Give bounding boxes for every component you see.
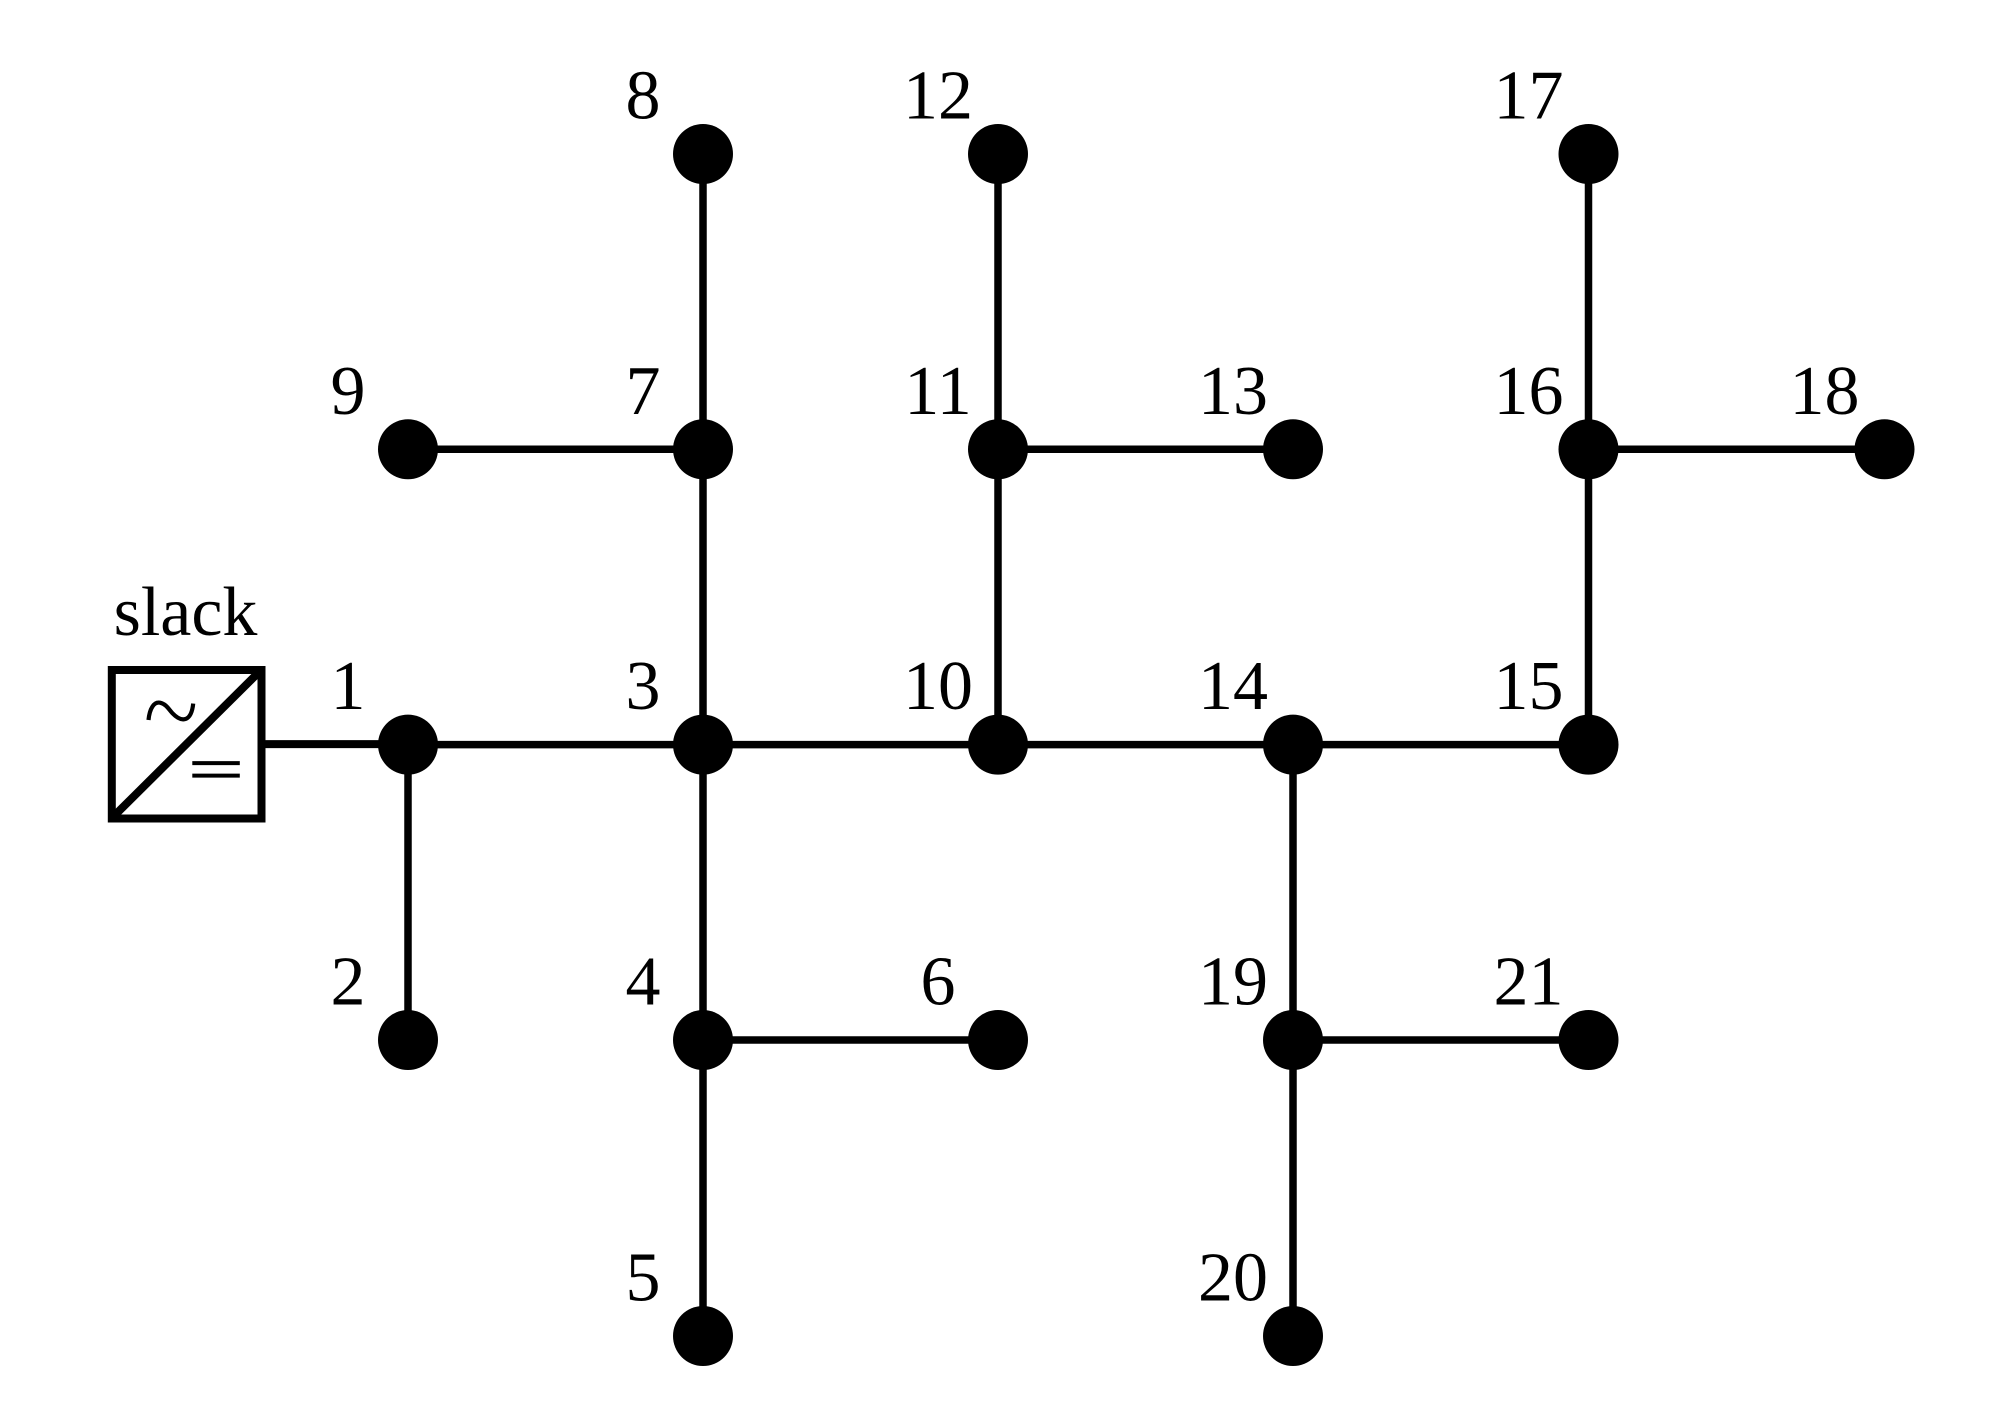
- node 5: [673, 1306, 733, 1366]
- svg-text:17: 17: [1494, 58, 1564, 135]
- wire 4-6: [703, 1036, 998, 1044]
- node 1: [378, 715, 438, 775]
- svg-text:3: 3: [626, 648, 661, 725]
- svg-text:10: 10: [903, 648, 973, 725]
- node 21: [1559, 1010, 1619, 1070]
- wire 7-3: [699, 449, 707, 744]
- node 16: [1559, 419, 1619, 479]
- svg-text:15: 15: [1494, 648, 1564, 725]
- svg-text:6: 6: [921, 944, 956, 1021]
- node 19: [1263, 1010, 1323, 1070]
- svg-text:5: 5: [626, 1240, 661, 1317]
- wire 8-7: [699, 154, 707, 449]
- wire 9-7: [408, 446, 703, 454]
- svg-text:9: 9: [331, 353, 366, 430]
- node 13: [1263, 419, 1323, 479]
- svg-text:18: 18: [1790, 353, 1860, 430]
- node 17: [1559, 124, 1619, 184]
- svg-text:21: 21: [1494, 944, 1564, 1021]
- svg-text:slack: slack: [114, 574, 258, 651]
- node 2: [378, 1010, 438, 1070]
- node 4: [673, 1010, 733, 1070]
- svg-text:2: 2: [331, 944, 366, 1021]
- svg-text:14: 14: [1198, 648, 1268, 725]
- node 6: [968, 1010, 1028, 1070]
- node 10: [968, 715, 1028, 775]
- wire 12-11: [994, 154, 1002, 449]
- wire 14-15: [1293, 741, 1589, 749]
- wire slack-1: [261, 740, 408, 748]
- svg-text:8: 8: [626, 58, 661, 135]
- wire 14-19: [1289, 745, 1297, 1040]
- wire 1-2: [404, 745, 412, 1040]
- node 9: [378, 419, 438, 479]
- svg-text:13: 13: [1198, 353, 1268, 430]
- wire 10-14: [998, 741, 1293, 749]
- node 7: [673, 419, 733, 479]
- wire 16-15: [1585, 449, 1593, 744]
- svg-text:1: 1: [331, 648, 366, 725]
- svg-text:12: 12: [903, 58, 973, 135]
- node 18: [1855, 419, 1915, 479]
- svg-text:16: 16: [1494, 353, 1564, 430]
- node 11: [968, 419, 1028, 479]
- node 14: [1263, 715, 1323, 775]
- svg-text:4: 4: [626, 944, 661, 1021]
- node 3: [673, 715, 733, 775]
- wire 3-10: [703, 741, 998, 749]
- slack converter symbol: [112, 670, 262, 819]
- svg-text:20: 20: [1198, 1240, 1268, 1317]
- wire 11-13: [998, 446, 1293, 454]
- wire 19-21: [1293, 1036, 1589, 1044]
- wire 1-3: [408, 741, 703, 749]
- wire 17-16: [1585, 154, 1593, 449]
- svg-text:7: 7: [626, 353, 661, 430]
- wire 11-10: [994, 449, 1002, 744]
- node 20: [1263, 1306, 1323, 1366]
- wire 19-20: [1289, 1040, 1297, 1336]
- node 12: [968, 124, 1028, 184]
- node 8: [673, 124, 733, 184]
- svg-text:19: 19: [1198, 944, 1268, 1021]
- wire 16-18: [1589, 446, 1885, 454]
- svg-text:11: 11: [904, 353, 971, 430]
- wire 3-4: [699, 745, 707, 1040]
- wire 4-5: [699, 1040, 707, 1336]
- node 15: [1559, 715, 1619, 775]
